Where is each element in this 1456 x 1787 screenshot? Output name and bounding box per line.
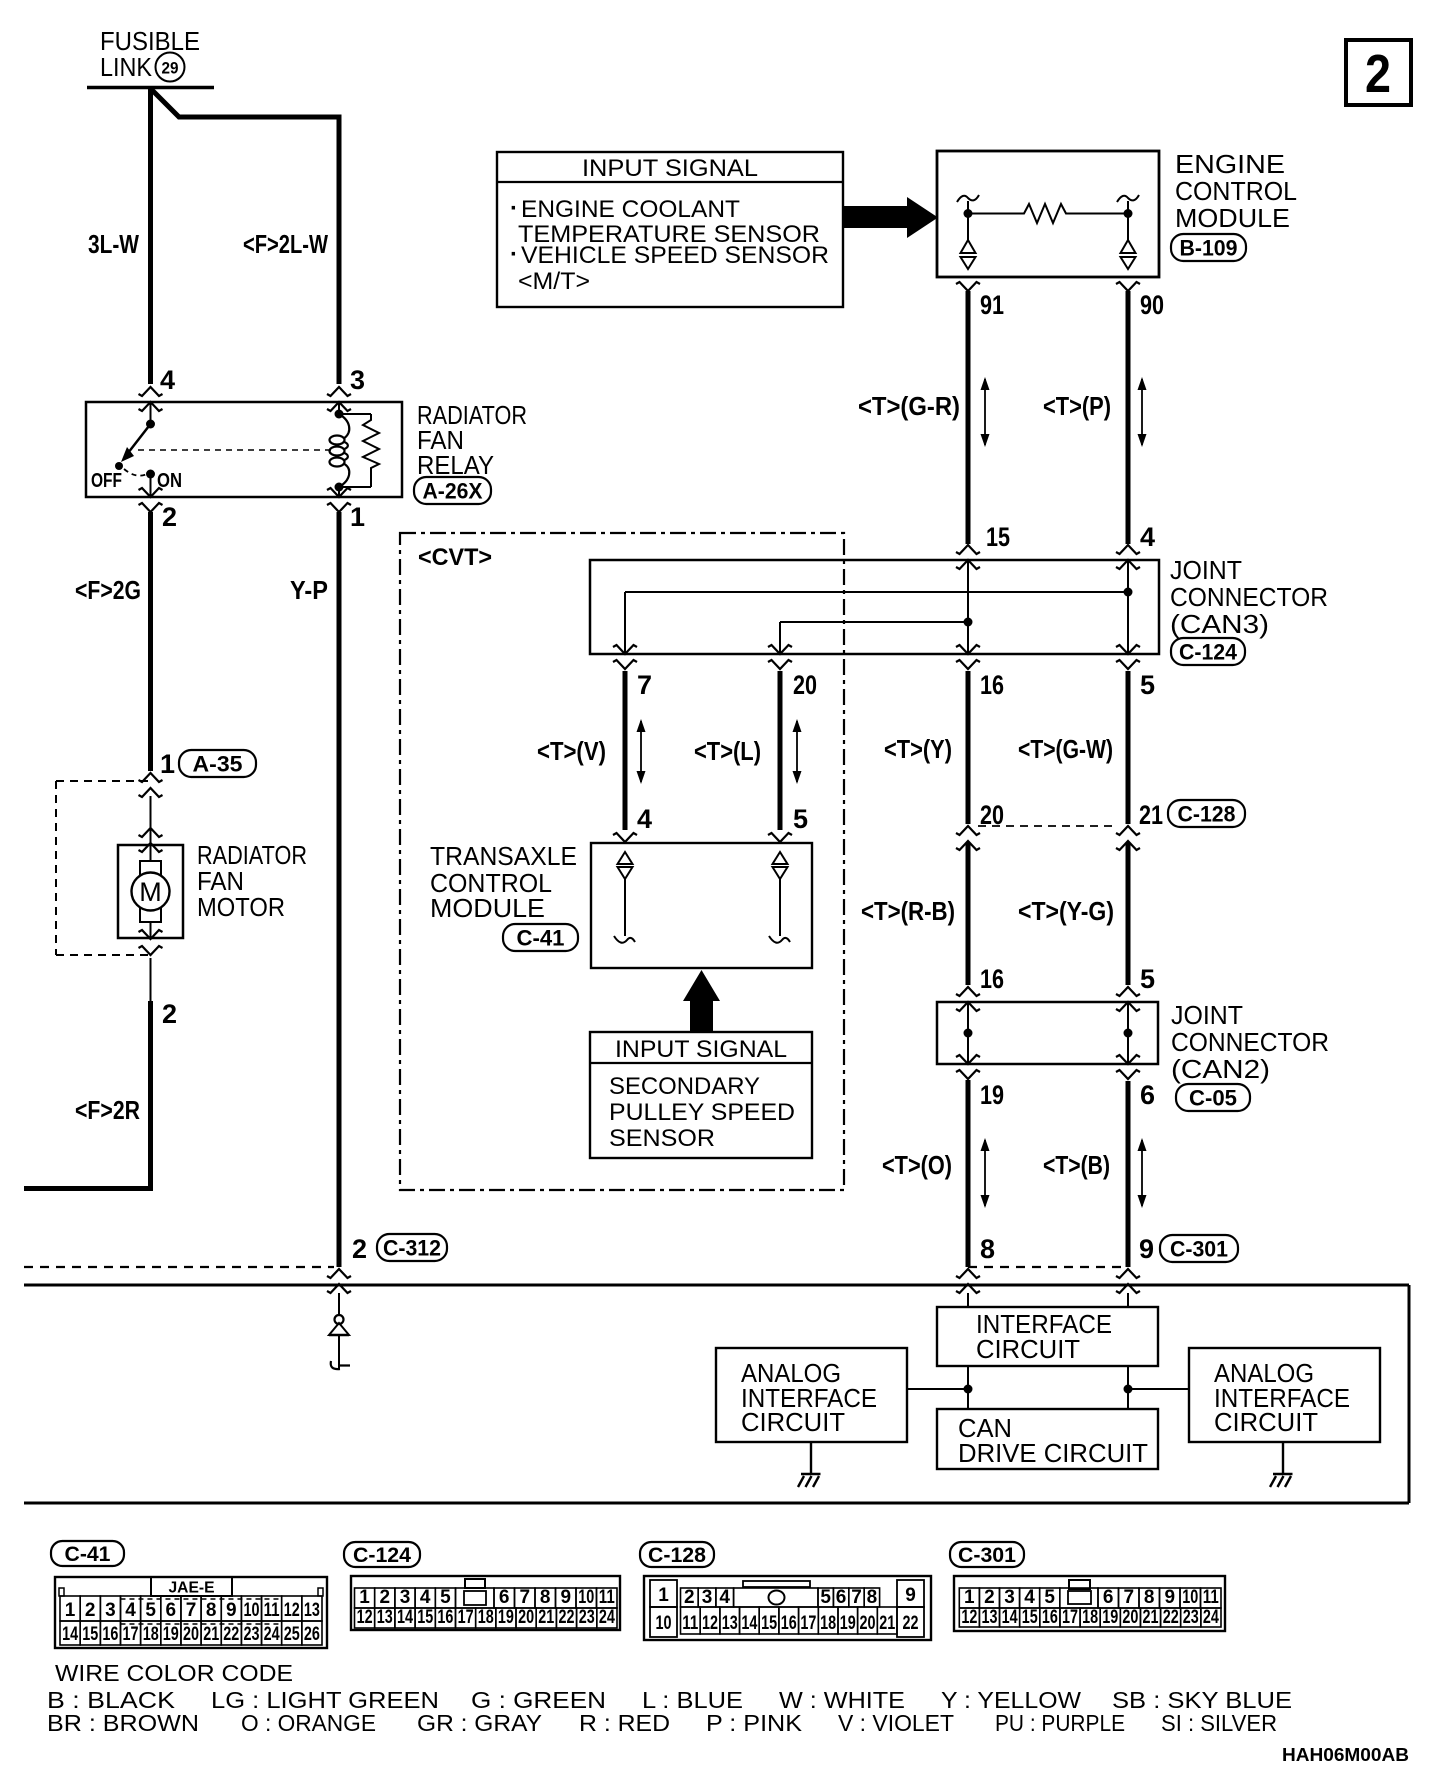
svg-text:ENGINE: ENGINE (1175, 149, 1285, 179)
svg-text:10: 10 (656, 1613, 672, 1634)
TCM internal pin right (769, 852, 790, 943)
relay pin 4 label (160, 365, 175, 395)
relay switch linkage dashed line (138, 449, 331, 451)
connector id A-35 (179, 750, 256, 777)
C-05 pin 19 label (980, 1080, 1004, 1110)
svg-text:CIRCUIT: CIRCUIT (976, 1334, 1080, 1364)
svg-text:·: · (510, 241, 518, 268)
connector A-35 pin 1 chevrons (139, 773, 163, 797)
svg-text:1: 1 (65, 1600, 76, 1621)
analog interface circuit left box (716, 1348, 907, 1442)
svg-text:20: 20 (1122, 1607, 1138, 1628)
wire label <F>2L-W (243, 229, 328, 259)
svg-text:10: 10 (244, 1600, 260, 1621)
svg-text:23: 23 (579, 1607, 595, 1628)
C-124 pin 5 label (1140, 670, 1155, 700)
joint connector CAN2 label (1171, 1000, 1329, 1084)
wire label <T>(Y) (884, 734, 952, 764)
C-301 pin 9 chevrons (1116, 1269, 1140, 1293)
fusible link 29 label (100, 26, 200, 82)
svg-text:17: 17 (800, 1613, 816, 1634)
svg-text:1: 1 (359, 1587, 370, 1608)
svg-text:<T>(G-W): <T>(G-W) (1018, 734, 1113, 764)
wire C-124 pin 7 to TCM pin 4 (623, 671, 628, 830)
svg-text:VEHICLE SPEED SENSOR: VEHICLE SPEED SENSOR (521, 242, 829, 269)
connector pinout C-128 body (644, 1576, 931, 1640)
wire label <T>(O) (882, 1150, 952, 1180)
svg-text:18: 18 (820, 1613, 836, 1634)
svg-text:<F>2L-W: <F>2L-W (243, 229, 328, 259)
C-124 pin 4 chevrons (1116, 545, 1140, 569)
connector id C-124 (1171, 638, 1245, 665)
wire color code line 2 (47, 1710, 1277, 1736)
connector A-35 pin 1 label (160, 749, 175, 779)
svg-text:17: 17 (1062, 1607, 1078, 1628)
svg-text:7: 7 (186, 1600, 197, 1621)
svg-text:9: 9 (561, 1587, 572, 1608)
svg-text:HAH06M00AB: HAH06M00AB (1282, 1745, 1409, 1765)
TCM pin 5 label (793, 804, 808, 834)
connector id C-05 (1176, 1084, 1250, 1111)
svg-text:INPUT SIGNAL: INPUT SIGNAL (615, 1036, 787, 1063)
svg-text:C-124: C-124 (353, 1544, 411, 1567)
svg-text:·: · (510, 195, 518, 222)
radiator fan relay A-26X box (86, 402, 402, 497)
svg-text:29: 29 (162, 59, 179, 78)
svg-text:14: 14 (397, 1607, 413, 1628)
svg-text:4: 4 (1140, 522, 1155, 552)
motor top connector chevrons (139, 828, 163, 852)
svg-text:<T>(B): <T>(B) (1043, 1150, 1110, 1180)
C-124 pin 16 label (980, 670, 1004, 700)
svg-text:19: 19 (163, 1624, 179, 1645)
svg-text:4: 4 (125, 1600, 136, 1621)
relay pin 3 connector chevrons (327, 387, 351, 411)
C-05 pin 19 exit chevrons (956, 1055, 980, 1079)
wire label <T>(G-R) (858, 391, 960, 421)
svg-text:13: 13 (304, 1600, 320, 1621)
svg-text:4: 4 (637, 804, 652, 834)
svg-text:C-05: C-05 (1189, 1085, 1237, 1110)
interface to CAN drive wires with junctions (907, 1366, 1189, 1409)
wire Y-P from relay pin 1 down to C-312 (337, 512, 342, 1267)
TCM pin 4 label (637, 804, 652, 834)
svg-text:9: 9 (1139, 1234, 1154, 1264)
C-05 pin 6 label (1140, 1080, 1155, 1110)
svg-text:22: 22 (1163, 1607, 1179, 1628)
connector id C-301 (1160, 1235, 1238, 1262)
C-05 pin 16 label (980, 964, 1004, 994)
interface circuit box (937, 1307, 1158, 1366)
svg-text:15: 15 (82, 1624, 98, 1645)
transaxle control module C-41 box (591, 843, 812, 968)
wire label <T>(R-B) (861, 896, 955, 926)
svg-text:3L-W: 3L-W (88, 229, 139, 259)
svg-text:12: 12 (961, 1607, 977, 1628)
svg-text:WIRE COLOR CODE: WIRE COLOR CODE (55, 1660, 293, 1686)
connector C-128 pin 21 label (1139, 800, 1163, 830)
motor pin 2 label (162, 999, 177, 1029)
svg-text:5: 5 (793, 804, 808, 834)
input signal box (TCM inputs) (590, 1032, 812, 1158)
engine control module B-109 box (937, 151, 1159, 277)
svg-text:3: 3 (702, 1587, 713, 1608)
svg-text:<T>(Y-G): <T>(Y-G) (1018, 896, 1114, 926)
svg-text:DRIVE CIRCUIT: DRIVE CIRCUIT (958, 1438, 1148, 1468)
svg-text:5: 5 (440, 1587, 451, 1608)
CAN_L wire C-05 pin 6 to C-301 pin 9 (1126, 1081, 1131, 1267)
wire <F>2L-W branch to relay pin 3 (151, 89, 339, 384)
svg-text:C-128: C-128 (1178, 801, 1236, 826)
svg-text:<T>(R-B): <T>(R-B) (861, 896, 955, 926)
svg-text:M: M (139, 877, 162, 907)
svg-text:JOINT: JOINT (1170, 555, 1242, 585)
relay switch (115, 402, 155, 470)
wire C-124 pin 20 to TCM pin 5 (778, 671, 783, 830)
twisted pair arrow bottom left (981, 1138, 990, 1208)
relay ON contact dot and dashed throw (124, 469, 155, 497)
svg-text:91: 91 (980, 290, 1004, 320)
CAN_H wire ECM 91 to C-124 pin 15 (966, 291, 971, 544)
svg-text:14: 14 (62, 1624, 78, 1645)
connector id C-312 (377, 1234, 447, 1261)
wire <F>2R from motor to body (24, 958, 153, 1189)
svg-text:2: 2 (352, 1234, 367, 1264)
connector pinout C-41 body (55, 1577, 327, 1648)
svg-text:11: 11 (264, 1600, 280, 1621)
svg-text:O : ORANGE: O : ORANGE (241, 1710, 376, 1736)
svg-text:8: 8 (867, 1587, 878, 1608)
svg-text:4: 4 (420, 1587, 431, 1608)
svg-text:18: 18 (1082, 1607, 1098, 1628)
svg-text:SI : SILVER: SI : SILVER (1161, 1710, 1277, 1736)
C-05 pin 5 label (1140, 964, 1155, 994)
svg-text:<F>2R: <F>2R (75, 1095, 140, 1125)
svg-text:7: 7 (520, 1587, 531, 1608)
svg-text:SECONDARY: SECONDARY (609, 1073, 760, 1100)
relay ON label (157, 470, 182, 492)
svg-text:6: 6 (1103, 1587, 1114, 1608)
C-124 pin 7 label (637, 670, 652, 700)
svg-text:4: 4 (1024, 1587, 1035, 1608)
svg-text:21: 21 (538, 1607, 554, 1628)
svg-text:21: 21 (1139, 800, 1163, 830)
C-124 internal bus wires (625, 560, 1133, 654)
C-124 pin 7 exit chevrons (613, 645, 637, 669)
relay pin 4 connector chevrons (139, 387, 163, 411)
svg-text:P : PINK: P : PINK (706, 1710, 803, 1736)
svg-text:SENSOR: SENSOR (609, 1125, 715, 1152)
svg-text:BR : BROWN: BR : BROWN (47, 1710, 199, 1736)
wire <F>2G from relay pin 2 to A-35 (148, 512, 153, 771)
twisted pair arrow left (981, 377, 990, 447)
wire label <T>(B) (1043, 1150, 1110, 1180)
svg-text:C-301: C-301 (958, 1544, 1016, 1567)
svg-text:A-26X: A-26X (423, 478, 483, 503)
svg-text:24: 24 (264, 1624, 280, 1645)
relay coil (330, 402, 350, 497)
svg-text:2: 2 (85, 1600, 96, 1621)
joint connector CAN2 C-05 box (937, 1002, 1158, 1064)
svg-text:20: 20 (518, 1607, 534, 1628)
svg-text:6: 6 (1140, 1080, 1155, 1110)
svg-text:16: 16 (437, 1607, 453, 1628)
svg-text:C-41: C-41 (65, 1543, 111, 1566)
wire 3L-W vertical feed to relay pin 4 (148, 87, 153, 384)
C-124 pin 20 label (793, 670, 817, 700)
svg-text:24: 24 (1203, 1607, 1219, 1628)
connector C-312 pin 2 chevrons (327, 1269, 351, 1293)
wire color code heading (55, 1660, 293, 1686)
C-124 pin 5 exit chevrons (1116, 645, 1140, 669)
svg-text:5: 5 (1044, 1587, 1055, 1608)
svg-text:CONNECTOR: CONNECTOR (1171, 1027, 1329, 1057)
input signal arrow to TCM (683, 970, 720, 1032)
input signal box (ECM inputs) (497, 152, 843, 307)
svg-text:INPUT SIGNAL: INPUT SIGNAL (582, 155, 758, 182)
svg-text:9: 9 (1165, 1587, 1176, 1608)
svg-text:8: 8 (206, 1600, 217, 1621)
connector id C-41 (503, 924, 578, 951)
C-05 pin 5 chevrons (1116, 987, 1140, 1011)
svg-text:ENGINE COOLANT: ENGINE COOLANT (521, 196, 740, 223)
joint connector CAN3 C-124 box (590, 560, 1159, 654)
joint connector CAN3 label (1170, 555, 1328, 639)
svg-text:2: 2 (984, 1587, 995, 1608)
svg-text:MODULE: MODULE (1175, 203, 1290, 233)
connector C-128 pin 21 chevrons (1116, 826, 1140, 850)
svg-text:19: 19 (498, 1607, 514, 1628)
CAN drive circuit box (937, 1409, 1158, 1469)
radiator fan relay label (417, 400, 527, 480)
CAN_H wire C-124 pin 16 to C-05 pin 16 (966, 671, 971, 985)
svg-text:8: 8 (540, 1587, 551, 1608)
svg-text:V : VIOLET: V : VIOLET (838, 1710, 954, 1736)
svg-text:<M/T>: <M/T> (518, 268, 590, 295)
ECM pin 91 label (980, 290, 1004, 320)
svg-text:26: 26 (304, 1624, 320, 1645)
svg-text:20: 20 (183, 1624, 199, 1645)
C-301 pin 9 label (1139, 1234, 1154, 1264)
ECM internal terminating resistor (968, 204, 1128, 223)
connector C-128 dashed pairing line (978, 825, 1118, 827)
relay coil parallel resistor (339, 414, 379, 487)
ECM internal pin 91 (957, 195, 979, 269)
combination meter outline right and bottom (24, 1285, 1409, 1503)
document number HAH06M00AB (1282, 1745, 1409, 1765)
noise capacitor symbol below C-312 (329, 1293, 350, 1369)
svg-text:C-124: C-124 (1179, 639, 1238, 664)
connector C-128 pin 20 chevrons (956, 826, 980, 850)
relay pin 2 label (162, 502, 177, 532)
fusible link bus bar (87, 86, 214, 90)
wire label <T>(L) (694, 736, 761, 766)
svg-text:RELAY: RELAY (417, 450, 494, 480)
svg-text:11: 11 (599, 1587, 615, 1608)
radiator fan motor label (197, 840, 307, 922)
svg-text:GR : GRAY: GR : GRAY (417, 1710, 542, 1736)
wire label <F>2G (75, 575, 141, 605)
connector pinout C-124 pin grid (355, 1587, 618, 1628)
CAN_H wire C-05 pin 19 to C-301 pin 8 (966, 1080, 971, 1267)
svg-text:18: 18 (143, 1624, 159, 1645)
svg-text:23: 23 (1183, 1607, 1199, 1628)
svg-text:<T>(Y): <T>(Y) (884, 734, 952, 764)
svg-text:7: 7 (637, 670, 652, 700)
C-301 pin 8 chevrons (956, 1269, 980, 1293)
svg-text:19: 19 (1102, 1607, 1118, 1628)
svg-text:21: 21 (203, 1624, 219, 1645)
svg-text:22: 22 (903, 1613, 919, 1634)
svg-text:16: 16 (102, 1624, 118, 1645)
C-124 pin 15 label (986, 522, 1010, 552)
wire color code line 1 (47, 1687, 1292, 1713)
svg-text:2: 2 (162, 999, 177, 1029)
svg-text:14: 14 (741, 1613, 757, 1634)
svg-text:11: 11 (1203, 1587, 1219, 1608)
ECM pin 91 exit chevrons (956, 282, 980, 291)
radiator fan motor dashed enclosure (56, 781, 150, 955)
C-05 internal wires (964, 1002, 1133, 1064)
svg-text:<T>(G-R): <T>(G-R) (858, 391, 960, 421)
C-301 pin 8 label (980, 1234, 995, 1264)
svg-text:1: 1 (658, 1585, 669, 1606)
wire label <T>(P) (1043, 391, 1111, 421)
svg-text:JOINT: JOINT (1171, 1000, 1243, 1030)
ground left analog interface (798, 1442, 821, 1487)
svg-text:<T>(O): <T>(O) (882, 1150, 952, 1180)
CVT variant dash-dot boundary box (400, 533, 844, 1190)
svg-text:C-41: C-41 (517, 925, 565, 950)
svg-text:JAE-E: JAE-E (169, 1580, 215, 1597)
svg-text:3: 3 (400, 1587, 411, 1608)
svg-text:4: 4 (160, 365, 175, 395)
svg-text:16: 16 (980, 670, 1004, 700)
relay pin 2 connector chevrons (139, 488, 163, 512)
wires into interface circuit (968, 1293, 1128, 1307)
wire A-35 to motor (150, 796, 152, 845)
svg-text:22: 22 (223, 1624, 239, 1645)
svg-text:<CVT>: <CVT> (418, 544, 492, 571)
svg-text:9: 9 (905, 1585, 916, 1606)
svg-text:2: 2 (162, 502, 177, 532)
connector pinout C-301 pin grid (959, 1587, 1221, 1628)
svg-text:5: 5 (820, 1587, 831, 1608)
connector pinout C-124 id label (344, 1542, 420, 1567)
svg-text:17: 17 (123, 1624, 139, 1645)
CAN_L wire ECM 90 to C-124 pin 4 (1126, 291, 1131, 544)
svg-text:PU : PURPLE: PU : PURPLE (995, 1710, 1125, 1736)
relay OFF label (91, 470, 122, 492)
relay pin 1 label (350, 502, 365, 532)
svg-text:4: 4 (719, 1587, 730, 1608)
svg-text:15: 15 (761, 1613, 777, 1634)
C-05 pin 16 chevrons (956, 987, 980, 1011)
connector pinout C-41 id label (51, 1541, 124, 1566)
svg-text:12: 12 (284, 1600, 300, 1621)
svg-text:(CAN3): (CAN3) (1170, 609, 1269, 639)
relay pin 1 connector chevrons (327, 488, 351, 512)
svg-text:<T>(V): <T>(V) (537, 736, 606, 766)
svg-text:25: 25 (284, 1624, 300, 1645)
wire label <T>(Y-G) (1018, 896, 1114, 926)
svg-text:6: 6 (836, 1587, 847, 1608)
svg-text:12: 12 (702, 1613, 718, 1634)
C-05 pin 6 exit chevrons (1116, 1055, 1140, 1079)
svg-text:TRANSAXLE: TRANSAXLE (430, 841, 577, 871)
CVT label (418, 544, 492, 571)
svg-text:MODULE: MODULE (430, 893, 545, 923)
twisted pair arrow TCM right (793, 719, 802, 784)
relay pin 3 label (350, 365, 365, 395)
combination meter outline top line (24, 1284, 1409, 1287)
svg-text:2: 2 (380, 1587, 391, 1608)
connector C-128 pin 20 label (980, 800, 1004, 830)
svg-text:9: 9 (226, 1600, 237, 1621)
svg-text:7: 7 (851, 1587, 862, 1608)
svg-text:CIRCUIT: CIRCUIT (741, 1407, 845, 1437)
svg-text:(CAN2): (CAN2) (1171, 1054, 1270, 1084)
svg-text:1: 1 (964, 1587, 975, 1608)
svg-text:12: 12 (357, 1607, 373, 1628)
svg-text:5: 5 (1140, 964, 1155, 994)
connector pinout C-41 pin grid (60, 1596, 322, 1645)
svg-text:3: 3 (350, 365, 365, 395)
connector C-312 pin 2 label (352, 1234, 367, 1264)
C-124 pin 4 label (1140, 522, 1155, 552)
svg-text:15: 15 (417, 1607, 433, 1628)
svg-text:18: 18 (478, 1607, 494, 1628)
svg-text:10: 10 (578, 1587, 594, 1608)
svg-text:13: 13 (722, 1613, 738, 1634)
connector id B-109 (1171, 234, 1246, 261)
motor bottom connector chevrons (139, 930, 163, 955)
connector pinout C-124 body (351, 1576, 620, 1630)
svg-text:20: 20 (860, 1613, 876, 1634)
svg-text:8: 8 (980, 1234, 995, 1264)
svg-text:90: 90 (1140, 290, 1164, 320)
svg-text:6: 6 (499, 1587, 510, 1608)
svg-text:14: 14 (1002, 1607, 1018, 1628)
svg-text:<T>(L): <T>(L) (694, 736, 761, 766)
engine control module label (1175, 149, 1297, 233)
twisted pair arrow right (1138, 377, 1147, 447)
svg-text:22: 22 (559, 1607, 575, 1628)
svg-text:LINK: LINK (100, 52, 153, 82)
ECM internal pin 90 (1117, 195, 1139, 269)
svg-text:3: 3 (105, 1600, 116, 1621)
twisted pair arrow bottom right (1138, 1138, 1147, 1208)
harness boundary dashed line left (24, 1266, 334, 1268)
connector pinout C-301 body (954, 1576, 1225, 1631)
connector pinout C-128 id label (640, 1542, 714, 1567)
svg-text:C-312: C-312 (383, 1235, 441, 1260)
svg-text:OFF: OFF (91, 470, 122, 492)
svg-text:17: 17 (458, 1607, 474, 1628)
svg-text:5: 5 (1140, 670, 1155, 700)
wire label <T>(G-W) (1018, 734, 1113, 764)
svg-text:8: 8 (1144, 1587, 1155, 1608)
radiator fan motor M (118, 845, 183, 938)
twisted pair arrow TCM left (637, 719, 646, 784)
svg-text:15: 15 (1022, 1607, 1038, 1628)
C-124 pin 15 chevrons (956, 545, 980, 569)
svg-text:6: 6 (166, 1600, 177, 1621)
svg-text:2: 2 (684, 1587, 695, 1608)
svg-text:Y-P: Y-P (290, 575, 328, 605)
svg-text:20: 20 (793, 670, 817, 700)
ECM pin 90 label (1140, 290, 1164, 320)
